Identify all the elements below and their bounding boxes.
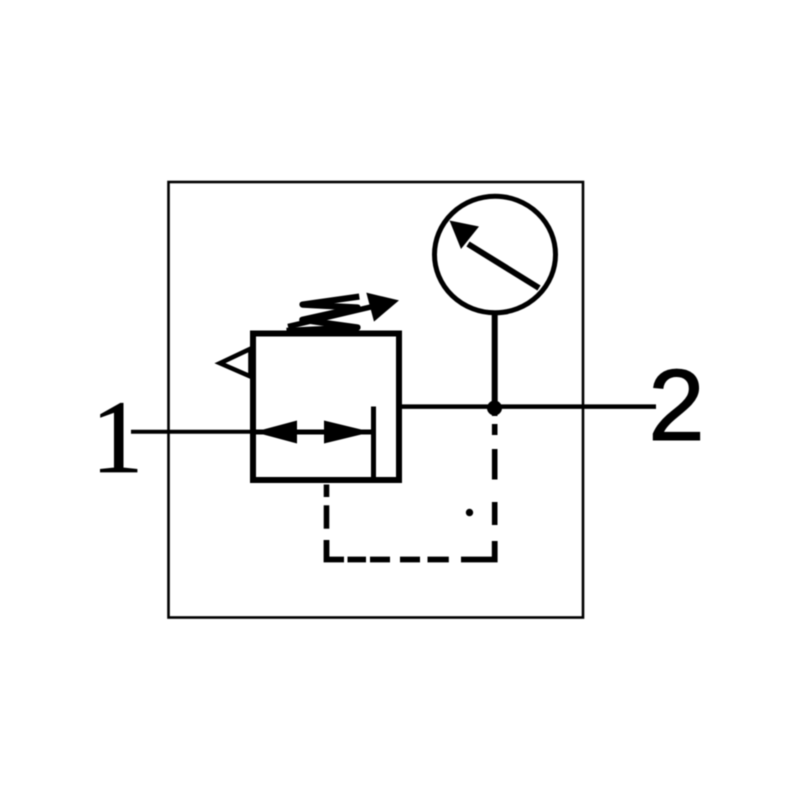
svg-text:2: 2	[648, 348, 704, 462]
gauge needle arrowhead	[450, 221, 480, 250]
flow path shaft (double-arrow line)	[255, 430, 371, 435]
junction node	[487, 401, 502, 416]
pilot dashed line: bottom-right corner dash	[461, 541, 495, 560]
adjustment arrow shaft	[288, 305, 380, 327]
regulator body (valve square)	[253, 334, 399, 481]
seat bar (inner vertical line)	[371, 407, 376, 478]
svg-text:1: 1	[91, 380, 143, 495]
stray dot mark	[466, 509, 473, 516]
left arrowhead	[254, 421, 297, 444]
spring (zigzag)	[287, 297, 360, 331]
relief vent triangle	[220, 349, 251, 377]
gauge circle G1	[435, 196, 556, 313]
adjustment arrowhead	[366, 293, 399, 322]
gauge needle shaft	[468, 244, 539, 288]
port 2 line	[399, 404, 657, 409]
enclosure frame (assembly boundary box)	[169, 182, 584, 618]
pilot dashed line: left vertical dash 1	[324, 485, 330, 498]
pilot dashed line: bottom dash b	[400, 557, 420, 563]
port 1 line	[131, 430, 255, 434]
pilot dashed line: right vertical dash 3	[492, 502, 498, 525]
gauge stem	[492, 313, 498, 406]
pilot dashed line: bottom-left corner dash	[327, 540, 345, 560]
pilot dashed line: bottom dash c	[370, 557, 390, 563]
pilot dashed line: right vertical dash 1	[492, 424, 498, 435]
pilot dashed line: bottom dash d	[348, 557, 367, 563]
pilot dashed line: right vertical dash 2	[492, 449, 498, 480]
pilot dashed line: left vertical dash 2	[324, 505, 330, 528]
right arrowhead	[324, 421, 372, 444]
pilot dashed line: bottom dash a	[428, 557, 449, 563]
pilot line stub below junction	[492, 408, 498, 416]
